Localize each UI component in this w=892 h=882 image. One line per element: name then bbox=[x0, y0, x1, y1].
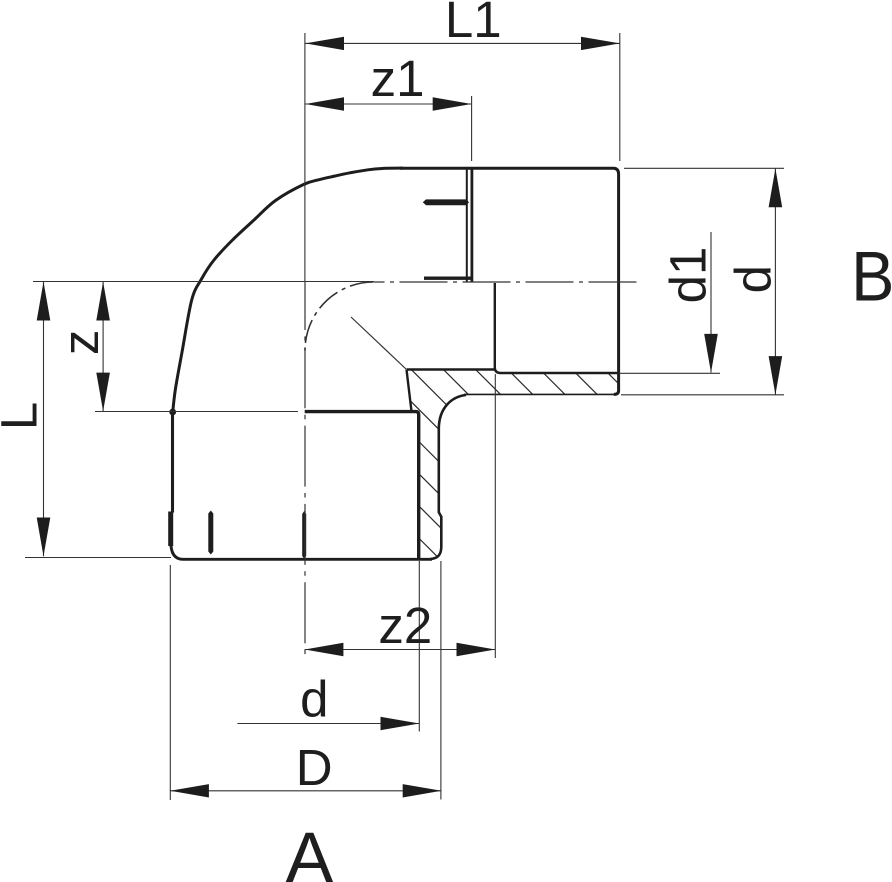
insertion-depth tick left (vertical leg) bbox=[208, 511, 213, 555]
svg-text:d: d bbox=[300, 671, 328, 728]
extension line bottom of L bbox=[25, 557, 171, 559]
svg-text:B: B bbox=[851, 238, 892, 316]
thick bar above centerline at socket (horizontal leg) bbox=[424, 277, 472, 280]
svg-text:z2: z2 bbox=[378, 597, 432, 654]
centerline vertical (dash-dot) bbox=[304, 282, 306, 658]
svg-text:d: d bbox=[725, 265, 782, 293]
dimension line z2 bbox=[305, 649, 496, 651]
svg-text:A: A bbox=[285, 819, 333, 882]
insertion-depth tick at centerline (vertical leg) bbox=[302, 511, 306, 559]
extension line for d bottom bbox=[418, 561, 420, 732]
extension line for D left bbox=[169, 565, 171, 800]
extension line for d1 bbox=[619, 372, 720, 374]
inner bore top line (left part) bbox=[407, 368, 495, 370]
dimension line z1 bbox=[305, 103, 471, 105]
inner fillet and right wall of vertical leg bbox=[431, 395, 467, 559]
tangent dot on outer arc bbox=[169, 409, 176, 416]
extension line for d bottom right bbox=[621, 394, 784, 396]
chamfer edge at inner corner bbox=[407, 370, 412, 411]
dimension line D bbox=[170, 790, 441, 792]
svg-text:z: z bbox=[52, 330, 109, 356]
extension line top of L and z bbox=[33, 281, 374, 283]
dimension line d (bottom) bbox=[237, 723, 419, 725]
extension line for L1/z1 left (centerline extension) bbox=[304, 33, 306, 282]
dimension line L1 bbox=[305, 42, 620, 44]
dimension line L bbox=[43, 282, 45, 556]
bottom edge of horizontal leg (section outer bottom) bbox=[464, 393, 615, 395]
centerline horizontal (dash-dot) bbox=[374, 281, 637, 283]
extension line bottom of z bbox=[95, 411, 298, 413]
svg-text:z1: z1 bbox=[371, 50, 425, 107]
extension line for z1 right bbox=[471, 96, 473, 161]
left edge of vertical leg bbox=[171, 413, 174, 513]
extension line for z2 right bbox=[494, 374, 496, 658]
extension line for D right bbox=[440, 561, 442, 800]
dimension line d1 bbox=[710, 232, 712, 373]
svg-text:L1: L1 bbox=[445, 0, 502, 48]
socket seam double line: left member bbox=[466, 169, 468, 282]
part outline: outer arc of elbow bbox=[173, 168, 403, 413]
extension line for L1 right bbox=[619, 33, 621, 161]
socket depth line of horizontal leg (section) bbox=[495, 283, 618, 373]
left edge lower (socket bead) bbox=[168, 512, 173, 547]
hatching of sectioned wall bbox=[199, 350, 815, 580]
svg-text:d1: d1 bbox=[659, 247, 716, 304]
thick insertion-depth tick in horizontal leg bbox=[423, 199, 469, 205]
socket depth line of vertical leg + wall left line bbox=[305, 412, 419, 558]
svg-text:D: D bbox=[296, 739, 333, 796]
socket seam double line: right member bbox=[470, 168, 473, 282]
extension line for d top right bbox=[624, 167, 784, 169]
dimension line z bbox=[102, 282, 104, 412]
centerline arc (dash-dot) bbox=[305, 282, 374, 351]
bottom edge of vertical leg bbox=[171, 542, 432, 559]
bore intersection diagonal bbox=[351, 317, 406, 369]
dimension line d (right) bbox=[774, 169, 776, 395]
svg-text:L: L bbox=[0, 402, 48, 430]
part outline: top edge of horizontal leg bbox=[400, 168, 619, 394]
